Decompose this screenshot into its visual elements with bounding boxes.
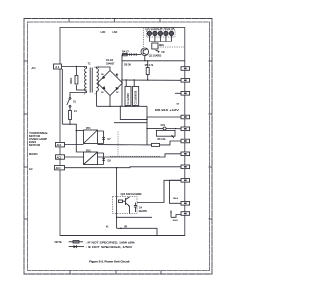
fuse F1	[69, 107, 78, 124]
jumper SH-9 lower	[173, 220, 179, 222]
note text	[55, 241, 136, 249]
svg-text:Figure 5-2. Power Unit Circuit: Figure 5-2. Power Unit Circuit	[89, 259, 129, 263]
wire secondary top to bridge	[97, 67, 111, 71]
node arrow mid	[172, 135, 174, 138]
svg-text:SH1: SH1	[161, 125, 166, 127]
note resistor symbol	[69, 241, 84, 243]
svg-text:D1: D1	[116, 74, 118, 76]
LED LD4	[164, 31, 168, 41]
svg-text:AC: AC	[29, 167, 33, 171]
svg-text:RM1: RM1	[159, 45, 165, 47]
wire AC1 to RY1 contact	[65, 144, 84, 146]
header P5	[181, 127, 190, 131]
header P7	[181, 152, 190, 156]
svg-text:L60: L60	[113, 30, 118, 34]
node L30/L60 label	[101, 30, 118, 34]
junction at varistor top	[76, 66, 77, 67]
svg-text:AC3: AC3	[56, 167, 61, 170]
svg-text:D2: D2	[116, 92, 118, 94]
label AC out	[29, 167, 33, 171]
svg-text:D3: D3	[101, 92, 103, 94]
wire Q2 collector down	[144, 56, 146, 61]
node VR arrow bottom	[117, 227, 157, 236]
LED LD1	[147, 31, 151, 41]
diode D6	[124, 53, 136, 66]
wire AC live to transformer	[62, 67, 87, 69]
diode D8	[102, 153, 111, 165]
header P4	[181, 115, 190, 119]
svg-text:SH-9: SH-9	[173, 198, 179, 200]
svg-text:: IF NOT SPECIFIED, 1/6W ±5%: : IF NOT SPECIFIED, 1/6W ±5%	[86, 241, 136, 244]
label 08	[177, 104, 180, 106]
LED LD3	[158, 31, 162, 41]
wire LED cathode bus	[149, 41, 171, 43]
LED LD2	[153, 31, 157, 41]
svg-text:T1: T1	[88, 62, 92, 66]
svg-text:SH-9: SH-9	[173, 220, 179, 222]
resistor R5	[145, 64, 154, 75]
wire RY1 to D7	[98, 131, 104, 144]
wire header P3 stub	[175, 92, 181, 94]
svg-text:VR: VR	[161, 52, 165, 54]
wire relay link (dashed)	[110, 155, 160, 157]
wire regulator top row	[122, 54, 129, 56]
bridge rectifier D1-D4	[98, 59, 123, 96]
connector AC3	[55, 166, 65, 171]
svg-text:VR: VR	[124, 227, 128, 229]
wire Q3 emitter down	[116, 203, 118, 228]
svg-text:A 1: A 1	[55, 65, 59, 69]
svg-text:VRD1: VRD1	[70, 77, 73, 84]
header P6	[181, 139, 190, 143]
svg-text:LD: LD2(CR-703)-2K: LD: LD2(CR-703)-2K	[145, 27, 176, 30]
PCB outline box	[60, 28, 185, 236]
svg-text:Q2 2SA953: Q2 2SA953	[149, 55, 162, 58]
header P11	[181, 212, 190, 216]
wire +12V branch	[114, 122, 147, 124]
transistor array Q3	[113, 168, 142, 214]
wire AC neutral return	[61, 69, 63, 124]
transistor Q2	[141, 48, 162, 58]
connector AC1	[56, 143, 65, 148]
svg-text:10u/35V: 10u/35V	[139, 211, 148, 213]
header P2	[181, 79, 190, 83]
jumper SH1	[147, 125, 185, 130]
LED display dashed enclosure	[147, 30, 176, 37]
svg-text:AC2: AC2	[57, 156, 62, 159]
wire R5 to +B bus	[147, 61, 149, 68]
header P9	[181, 179, 190, 183]
svg-text:RY1: RY1	[86, 127, 91, 130]
wire regulated rail to header P1	[122, 60, 185, 62]
jumper SH-9 upper	[170, 180, 182, 203]
varistor VRD1	[70, 67, 78, 91]
switch S1	[67, 91, 87, 107]
connector AC2	[56, 155, 65, 160]
svg-text:: IF NOT SPECIFIED, 1/50V: : IF NOT SPECIFIED, 1/50V	[86, 246, 133, 249]
svg-text:L30: L30	[101, 30, 106, 34]
svg-text:C2 10000/35: C2 10000/35	[135, 90, 138, 104]
svg-text:R6 910 +12V: R6 910 +12V	[155, 109, 180, 112]
wire 0V to header P4	[120, 106, 185, 119]
resistor R8	[98, 139, 185, 147]
wire relay link vertical (dashed)	[117, 132, 119, 157]
wire relay feed RY1	[76, 130, 83, 132]
capacitor C2	[133, 80, 139, 106]
label +12V rail	[155, 109, 180, 112]
page frame (decorative)	[24, 19, 212, 275]
wire mid riser	[146, 106, 148, 145]
svg-text:MICRO: MICRO	[29, 152, 38, 156]
caption	[89, 259, 129, 263]
label AC input	[32, 66, 37, 70]
diode D5	[129, 53, 132, 56]
wire RM1 to header (dashed)	[158, 46, 184, 48]
svg-text:7: 7	[95, 94, 96, 96]
svg-text:NOTE: NOTE	[55, 241, 62, 244]
relay RY2	[84, 149, 98, 164]
header P10	[181, 202, 190, 206]
wire switch row to relays	[62, 124, 76, 130]
relay RY1	[84, 127, 98, 144]
capacitor C1	[125, 80, 131, 106]
transformer T1	[84, 62, 99, 96]
svg-text:1N4007: 1N4007	[106, 62, 115, 65]
resistor R4	[122, 51, 129, 56]
svg-text:D5 D6: D5 D6	[124, 63, 131, 66]
header P1	[181, 67, 190, 71]
wire bridge - output	[109, 96, 111, 107]
label MICRO	[29, 152, 38, 156]
note diode symbol	[69, 245, 84, 248]
svg-text:AC1: AC1	[57, 144, 62, 147]
label turntable loads	[29, 132, 48, 147]
wire RY2 row to header P7	[98, 154, 185, 157]
svg-text:8: 8	[95, 67, 96, 69]
wire secondary bottom to 0V bus	[96, 91, 98, 106]
LED LD5	[169, 31, 173, 41]
header P8	[181, 165, 190, 169]
wire RY2 to D8	[98, 153, 104, 165]
diode D7	[102, 131, 111, 144]
wire bottom bus	[61, 235, 185, 237]
wire AC3 to header P8	[65, 166, 185, 169]
capacitor C4	[130, 203, 148, 214]
svg-text:D4: D4	[101, 74, 103, 76]
svg-text:R8 3.3k: R8 3.3k	[158, 139, 167, 141]
svg-text:C1 1u/50V: C1 1u/50V	[127, 93, 130, 105]
wire varistor bottom to primary bottom	[76, 89, 86, 91]
header P3	[181, 92, 190, 96]
connector A (AC input)	[54, 64, 62, 69]
svg-text:MOTOR: MOTOR	[29, 144, 40, 147]
node VR arrow	[156, 50, 165, 54]
wire relay feed RY2	[76, 131, 83, 152]
wire AC2 to RY2 contact	[65, 156, 84, 158]
svg-text:Q3 KRC243M: Q3 KRC243M	[121, 192, 142, 196]
wire +B bus	[121, 79, 185, 81]
component outline below SH1	[156, 130, 175, 136]
wire Q3 collector to header P9	[137, 180, 185, 202]
svg-text:1: 1	[84, 94, 85, 96]
wire emitter row to header P11	[117, 211, 181, 218]
svg-text:R5 4.7k: R5 4.7k	[145, 64, 154, 67]
wire 0V bus	[97, 105, 148, 107]
header pin marks	[184, 68, 187, 70]
wire bridge to R4 riser	[121, 55, 123, 107]
resistor network RM1	[152, 43, 165, 49]
